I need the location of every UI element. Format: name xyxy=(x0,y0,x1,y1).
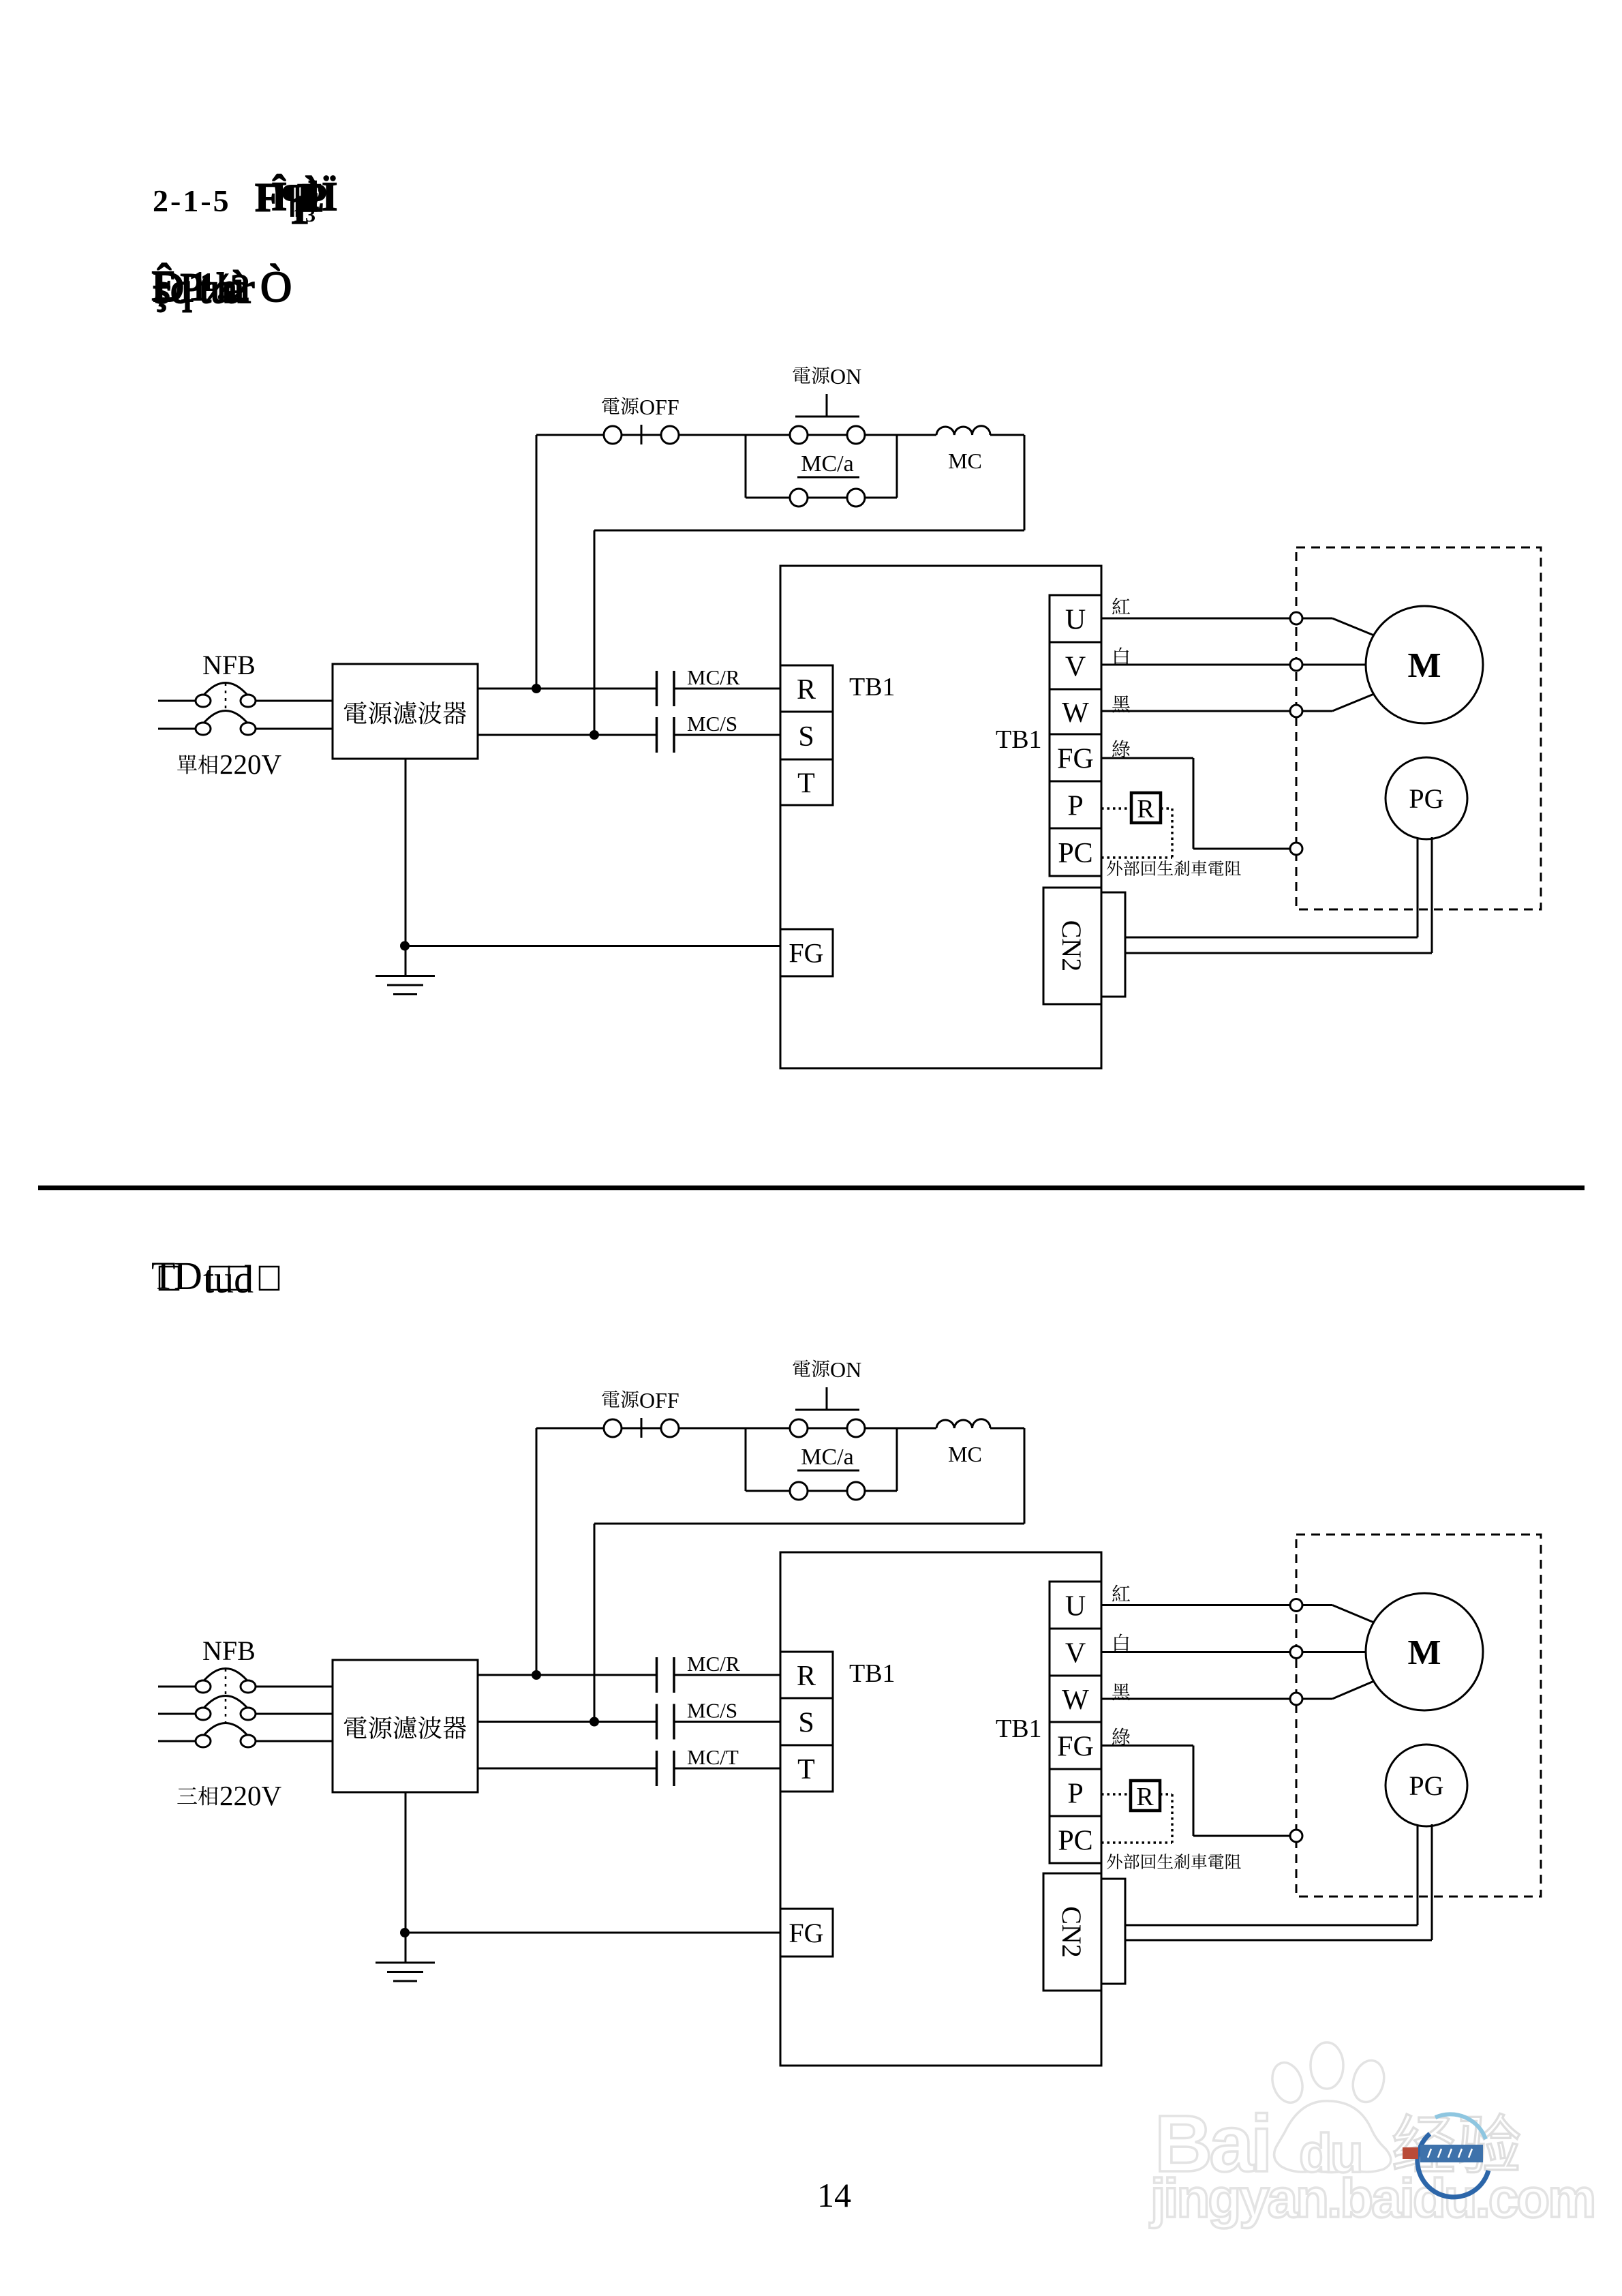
svg-text:FG: FG xyxy=(789,938,823,969)
svg-text:jingyan.baidu.com: jingyan.baidu.com xyxy=(1149,2168,1594,2229)
svg-text:U: U xyxy=(1065,605,1086,636)
svg-text:2-1-5: 2-1-5 xyxy=(153,183,231,218)
svg-text:MC/a: MC/a xyxy=(801,1445,853,1470)
svg-text:r: r xyxy=(240,264,254,312)
svg-text:V: V xyxy=(1065,1638,1086,1670)
svg-text:220V: 220V xyxy=(219,1780,282,1811)
svg-text:CN2: CN2 xyxy=(1056,920,1087,972)
svg-text:M: M xyxy=(1407,1633,1441,1672)
svg-text:ş: ş xyxy=(154,266,170,312)
svg-text:D: D xyxy=(174,1254,202,1298)
svg-text:Ò: Ò xyxy=(260,262,292,311)
svg-text:W: W xyxy=(1062,697,1089,729)
svg-text:PG: PG xyxy=(1409,783,1443,814)
svg-text:T: T xyxy=(797,1754,815,1785)
svg-text:14: 14 xyxy=(817,2176,851,2214)
svg-text:MC/R: MC/R xyxy=(687,1652,740,1676)
svg-text:Ï: Ï xyxy=(322,174,337,219)
svg-text:P: P xyxy=(1067,791,1083,822)
svg-text:PC: PC xyxy=(1058,1826,1092,1857)
svg-text:MC: MC xyxy=(948,1442,982,1466)
svg-text:FG: FG xyxy=(1057,1732,1094,1763)
svg-text:R: R xyxy=(1136,1783,1154,1811)
svg-text:PC: PC xyxy=(1058,838,1092,869)
svg-text:TB1: TB1 xyxy=(996,725,1042,754)
svg-text:CN2: CN2 xyxy=(1056,1906,1087,1958)
svg-text:PG: PG xyxy=(1409,1770,1443,1801)
svg-text:TB1: TB1 xyxy=(849,1659,896,1688)
svg-text:MC/R: MC/R xyxy=(687,665,740,689)
svg-text:ON: ON xyxy=(830,1357,861,1382)
svg-text:FG: FG xyxy=(789,1918,823,1948)
svg-text:220V: 220V xyxy=(219,749,282,780)
svg-text:tud: tud xyxy=(203,1257,254,1301)
svg-text:OFF: OFF xyxy=(639,1388,679,1413)
svg-text:P: P xyxy=(1067,1779,1083,1810)
svg-text:NFB: NFB xyxy=(202,1635,256,1666)
svg-text:ON: ON xyxy=(830,364,861,389)
svg-text:T: T xyxy=(151,1254,175,1298)
svg-text:T: T xyxy=(797,768,815,800)
svg-text:R: R xyxy=(797,674,816,706)
svg-text:1: 1 xyxy=(293,205,303,226)
svg-text:3: 3 xyxy=(305,204,316,226)
svg-text:MC/S: MC/S xyxy=(687,1699,737,1723)
svg-text:R: R xyxy=(797,1661,816,1692)
svg-text:MC/a: MC/a xyxy=(801,451,853,477)
svg-text:U: U xyxy=(1065,1591,1086,1622)
svg-text:M: M xyxy=(1407,646,1441,685)
svg-text:V: V xyxy=(1065,652,1086,683)
svg-text:MC: MC xyxy=(948,449,982,473)
svg-text:R: R xyxy=(1137,795,1154,824)
svg-text:TB1: TB1 xyxy=(996,1715,1042,1743)
svg-text:OFF: OFF xyxy=(639,395,679,419)
svg-text:FG: FG xyxy=(1057,744,1094,775)
svg-text:MC/S: MC/S xyxy=(687,712,737,736)
svg-text:MC/T: MC/T xyxy=(687,1745,739,1769)
svg-text:W: W xyxy=(1062,1685,1089,1716)
svg-text:S: S xyxy=(798,1708,814,1739)
svg-text:TB1: TB1 xyxy=(849,673,896,701)
svg-text:S: S xyxy=(798,721,814,753)
svg-text:NFB: NFB xyxy=(202,650,256,680)
